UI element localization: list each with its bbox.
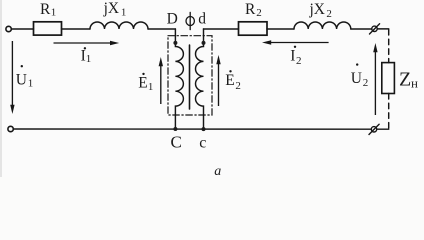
core boundary (dash-dot) bbox=[168, 36, 212, 115]
inductor jX1 bbox=[90, 22, 148, 29]
label R1 bbox=[40, 1, 56, 19]
wire jX1 to winding W1 bbox=[148, 28, 175, 30]
current arrow I2 bbox=[262, 40, 329, 44]
bottom wire bbox=[13, 128, 371, 130]
svg-text:2: 2 bbox=[326, 8, 332, 20]
wire top-left to R1 bbox=[11, 28, 33, 30]
terminal top-left bbox=[6, 26, 11, 31]
junction dot winding W1 top bbox=[173, 41, 177, 45]
resistor R1 bbox=[34, 22, 62, 35]
label I1 bbox=[81, 47, 92, 65]
label E2 bbox=[225, 70, 241, 92]
wire jX2 to terminal bbox=[351, 28, 372, 30]
winding W1 (primary) bbox=[175, 29, 183, 129]
dashed lead to Zn (top) bbox=[388, 30, 390, 63]
svg-text:jX: jX bbox=[309, 1, 326, 18]
svg-text:C: C bbox=[171, 132, 182, 151]
svg-text:U: U bbox=[16, 72, 27, 89]
svg-text:Z: Z bbox=[399, 68, 411, 90]
label jX2 bbox=[309, 1, 332, 20]
terminal bottom-right (slashed) bbox=[369, 124, 379, 134]
wire terminal to dashed lead bbox=[377, 28, 388, 30]
svg-text:D: D bbox=[167, 11, 178, 28]
label E1 bbox=[138, 73, 153, 93]
current arrow I1 bbox=[54, 41, 120, 45]
label Zn bbox=[399, 68, 418, 90]
terminal bottom-left bbox=[8, 126, 13, 131]
svg-text:н: н bbox=[411, 76, 418, 91]
label U2 bbox=[351, 63, 369, 89]
label jX1 bbox=[103, 0, 127, 18]
core line bbox=[189, 45, 191, 109]
svg-text:d: d bbox=[198, 11, 206, 28]
label R2 bbox=[245, 1, 262, 19]
inductor jX2 bbox=[294, 22, 351, 29]
svg-text:R: R bbox=[245, 1, 256, 18]
winding W2 (secondary) bbox=[196, 29, 204, 129]
wire W2 to R2 bbox=[204, 28, 239, 30]
resistor R2 bbox=[239, 22, 268, 35]
label U1 bbox=[16, 65, 33, 89]
svg-text:1: 1 bbox=[28, 77, 34, 89]
wire R1 to jX1 bbox=[62, 28, 91, 30]
junction dot winding W2 top bbox=[202, 41, 206, 45]
svg-text:E: E bbox=[138, 74, 147, 91]
voltage arrow U1 (down) bbox=[10, 41, 14, 114]
emf arrow E1 (up) bbox=[159, 57, 163, 104]
label I2 bbox=[290, 46, 301, 67]
svg-text:R: R bbox=[40, 1, 51, 18]
svg-text:E: E bbox=[225, 72, 234, 89]
svg-text:1: 1 bbox=[121, 7, 127, 19]
svg-text:2: 2 bbox=[235, 80, 241, 92]
svg-text:2: 2 bbox=[256, 7, 262, 19]
svg-text:a: a bbox=[214, 164, 221, 177]
wire R2 to jX2 bbox=[267, 28, 294, 30]
svg-text:2: 2 bbox=[296, 55, 302, 67]
terminal top-right (slashed) bbox=[370, 24, 380, 34]
dashed lead from Zn (bottom) bbox=[388, 94, 390, 130]
junction node C bbox=[173, 127, 177, 131]
svg-text:2: 2 bbox=[363, 77, 369, 89]
svg-text:U: U bbox=[351, 70, 362, 87]
svg-text:1: 1 bbox=[51, 6, 57, 18]
svg-text:I: I bbox=[290, 47, 295, 64]
emf arrow E2 (up) bbox=[216, 55, 220, 106]
load impedance Zn bbox=[382, 63, 395, 94]
voltage arrow U2 (up) bbox=[373, 43, 377, 115]
svg-text:1: 1 bbox=[86, 53, 92, 65]
svg-text:c: c bbox=[199, 134, 206, 151]
svg-text:1: 1 bbox=[148, 81, 154, 93]
flux phi symbol bbox=[186, 12, 194, 29]
svg-text:jX: jX bbox=[103, 0, 120, 17]
junction node c bbox=[202, 127, 206, 131]
wire bottom terminal to dashed lead bbox=[377, 128, 389, 130]
